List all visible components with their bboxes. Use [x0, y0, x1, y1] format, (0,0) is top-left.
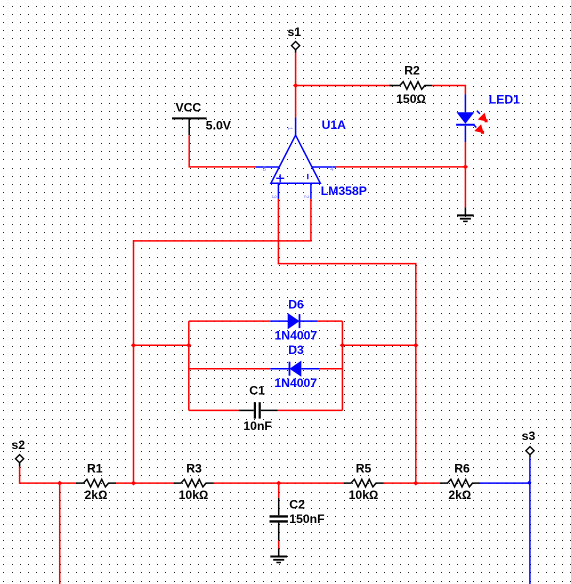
junction bottom stub: [57, 481, 62, 486]
svg-text:LED1: LED1: [489, 92, 520, 106]
svg-text:D3: D3: [288, 343, 304, 357]
svg-text:R2: R2: [404, 64, 420, 78]
wire LED cathode down to ground: [464, 142, 466, 207]
junction diode box right: [340, 343, 345, 348]
wire junction to R2: [296, 85, 393, 87]
resistor R2: [389, 64, 432, 106]
junction right rail: [413, 343, 418, 348]
wire R6 to s3 (blue net): [480, 482, 530, 484]
junction left rail/bus: [131, 481, 136, 486]
wire op-amp pin3 to right rail: [278, 199, 415, 483]
svg-text:D6: D6: [288, 297, 304, 311]
svg-text:R6: R6: [454, 461, 470, 475]
resistor R6: [440, 461, 480, 502]
svg-text:10kΩ: 10kΩ: [349, 488, 379, 502]
ground (LED): [457, 207, 474, 221]
svg-text:10kΩ: 10kΩ: [179, 488, 209, 502]
svg-text:10nF: 10nF: [243, 419, 271, 433]
svg-text:R1: R1: [87, 461, 103, 475]
svg-text:R5: R5: [356, 461, 372, 475]
node s1: [288, 25, 302, 53]
wire R1 to R3: [116, 482, 173, 484]
svg-text:1N4007: 1N4007: [275, 329, 318, 343]
diode D6: [189, 297, 343, 342]
svg-text:2kΩ: 2kΩ: [85, 488, 108, 502]
node s3: [522, 429, 536, 458]
wire op-amp pin4 to LED junction: [336, 166, 465, 168]
svg-text:C2: C2: [289, 497, 305, 511]
op-amp U1A LM358P: [256, 117, 337, 199]
svg-text:R3: R3: [186, 461, 202, 475]
svg-text:150nF: 150nF: [289, 512, 324, 526]
wire s1 to op-amp output: [295, 53, 297, 118]
wire diode box to right rail: [342, 344, 415, 346]
svg-text:C1: C1: [249, 384, 265, 398]
wire op-amp pin2 to left rail: [134, 199, 311, 483]
junction s1/R2/output: [293, 83, 298, 88]
junction left rail: [131, 343, 136, 348]
ground (C2): [270, 549, 287, 563]
junction diode box left: [186, 343, 191, 348]
svg-text:s1: s1: [288, 25, 302, 39]
junction s3/bus (blue): [527, 481, 531, 485]
svg-text:s2: s2: [12, 438, 26, 452]
svg-text:2kΩ: 2kΩ: [448, 488, 471, 502]
junction LED/op-amp pin4: [463, 165, 468, 170]
wire s2 to bus: [20, 467, 76, 484]
wire left rail to diode box: [134, 344, 189, 346]
svg-text:U1A: U1A: [322, 118, 347, 132]
svg-text:1N4007: 1N4007: [274, 376, 317, 390]
diode box right rail: [341, 321, 343, 410]
LED arrow 2: [473, 124, 484, 134]
svg-text:s3: s3: [522, 429, 536, 443]
capacitor C1: [189, 384, 343, 433]
junction right rail/bus: [413, 481, 418, 486]
diode box left rail: [188, 321, 190, 410]
wire VCC to op-amp pin8: [189, 135, 256, 167]
wire C2 to ground: [278, 541, 280, 549]
svg-text:VCC: VCC: [176, 101, 202, 115]
wire stub to bottom edge: [59, 483, 61, 584]
svg-text:LM358P: LM358P: [321, 184, 367, 198]
diode D3: [189, 343, 343, 390]
junction C2 tap: [276, 481, 281, 486]
LED arrow 1: [477, 111, 488, 123]
resistor R1: [76, 461, 116, 502]
capacitor C2: [270, 483, 325, 541]
power VCC 5.0V: [172, 101, 232, 136]
wire R5 to R6: [384, 482, 441, 484]
svg-text:150Ω: 150Ω: [396, 92, 426, 106]
resistor R5: [344, 461, 384, 502]
wire R3 to R5: [214, 482, 344, 484]
node s2: [12, 438, 26, 467]
LED LED1: [456, 92, 520, 142]
wire R2 to LED: [432, 86, 465, 95]
wire s3 down to bottom edge (blue net): [529, 458, 531, 584]
resistor R3: [174, 461, 214, 502]
svg-text:5.0V: 5.0V: [206, 119, 232, 133]
